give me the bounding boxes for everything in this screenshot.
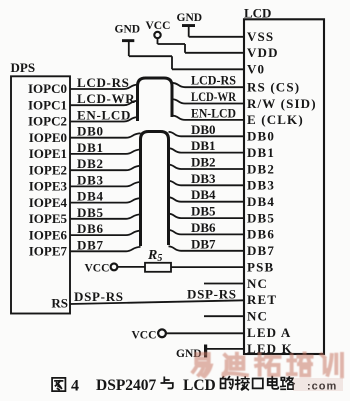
svg-text:LED K: LED K bbox=[247, 341, 293, 356]
wire DB1 (right segment to LCD pin DB1) bbox=[169, 148, 245, 152]
svg-text:EN-LCD: EN-LCD bbox=[77, 108, 131, 123]
svg-text:DB1: DB1 bbox=[191, 138, 216, 153]
svg-text:4: 4 bbox=[71, 378, 79, 395]
wire DB0 (left segment from DSP pin IOPE0) bbox=[70, 133, 141, 137]
wire LCD-WR (left segment from DSP pin IOPC1) bbox=[70, 101, 138, 105]
svg-text:DB2: DB2 bbox=[191, 155, 216, 170]
svg-text:DB7: DB7 bbox=[77, 237, 104, 252]
caption 图4 DSP2407 与 LCD 的接口电路 bbox=[52, 377, 294, 395]
svg-text:RS (CS): RS (CS) bbox=[247, 80, 300, 95]
VCC symbol (to VDD) bbox=[146, 20, 245, 53]
svg-text:DB4: DB4 bbox=[191, 187, 216, 202]
wire R5 to PSB bbox=[171, 266, 244, 268]
svg-text:DSP2407: DSP2407 bbox=[96, 377, 157, 394]
wire DB4 (left segment from DSP pin IOPE4) bbox=[70, 198, 141, 202]
ground symbol GND2 (to VSS) bbox=[177, 12, 245, 37]
svg-text:RS: RS bbox=[51, 296, 68, 311]
svg-text:DB0: DB0 bbox=[191, 122, 216, 137]
svg-text:DB1: DB1 bbox=[77, 140, 104, 155]
cable bundle hump 2 (data bus DB0-DB7) bbox=[141, 132, 169, 247]
svg-text:IOPC0: IOPC0 bbox=[28, 81, 67, 96]
svg-text:DB2: DB2 bbox=[247, 161, 275, 176]
svg-text:IOPE6: IOPE6 bbox=[29, 227, 68, 242]
svg-text:VSS: VSS bbox=[247, 29, 274, 44]
cable bundle hump 1 (control signals) bbox=[138, 78, 173, 121]
svg-text:V0: V0 bbox=[247, 62, 265, 77]
svg-text:DB1: DB1 bbox=[247, 145, 275, 160]
wire DB0 (right segment to LCD pin DB0) bbox=[169, 132, 245, 136]
svg-text:LCD-WR: LCD-WR bbox=[77, 91, 135, 106]
svg-text:VDD: VDD bbox=[247, 45, 279, 60]
wire DB3 (right segment to LCD pin DB3) bbox=[169, 181, 245, 185]
svg-text:DB0: DB0 bbox=[77, 124, 104, 139]
wire DB6 (right segment to LCD pin DB6) bbox=[169, 230, 245, 234]
wire DB5 (left segment from DSP pin IOPE5) bbox=[70, 214, 141, 218]
wire EN-LCD (left segment from DSP pin IOPC2) bbox=[70, 117, 138, 121]
svg-text:NC: NC bbox=[247, 276, 268, 291]
svg-text:DB6: DB6 bbox=[247, 227, 275, 242]
svg-text:IOPC1: IOPC1 bbox=[28, 97, 67, 112]
svg-text:IOPE5: IOPE5 bbox=[29, 211, 68, 226]
VCC symbol (LED A) bbox=[132, 329, 245, 341]
svg-text:E (CLK): E (CLK) bbox=[247, 112, 304, 127]
svg-text:IOPE3: IOPE3 bbox=[29, 179, 68, 194]
wire DB2 (left segment from DSP pin IOPE2) bbox=[70, 166, 141, 170]
watermark 易迪拓培训 bbox=[193, 353, 343, 392]
svg-text:DB3: DB3 bbox=[247, 178, 275, 193]
svg-text:LCD: LCD bbox=[183, 377, 216, 394]
wire EN-LCD (right segment to LCD pin E(CLK)) bbox=[172, 116, 244, 120]
wire DB1 (left segment from DSP pin IOPE1) bbox=[70, 150, 141, 154]
svg-text:DSP-RS: DSP-RS bbox=[74, 289, 124, 304]
svg-text:LCD-WR: LCD-WR bbox=[191, 89, 237, 104]
svg-text:LCD-RS: LCD-RS bbox=[77, 75, 130, 90]
LCD module box bbox=[244, 19, 324, 354]
ground symbol GND1 (to V0) bbox=[115, 24, 245, 70]
wire LCD-RS (left segment from DSP pin IOPC0) bbox=[70, 85, 138, 89]
svg-text:DB6: DB6 bbox=[77, 221, 104, 236]
svg-text:VCC: VCC bbox=[132, 330, 157, 342]
svg-text:DB0: DB0 bbox=[247, 129, 275, 144]
ground symbol GND3 (LED K) bbox=[176, 345, 244, 361]
svg-text:GND: GND bbox=[177, 12, 203, 24]
wire DB7 (left segment from DSP pin IOPE7) bbox=[70, 247, 141, 251]
svg-text:LED A: LED A bbox=[247, 325, 291, 340]
wire DB5 (right segment to LCD pin DB5) bbox=[169, 214, 245, 218]
svg-text:DB5: DB5 bbox=[191, 204, 216, 219]
svg-text:IOPC2: IOPC2 bbox=[28, 114, 67, 129]
svg-text:IOPE1: IOPE1 bbox=[29, 146, 67, 161]
DSP chip U1 box (DPS) bbox=[11, 76, 70, 313]
wire DB2 (right segment to LCD pin DB2) bbox=[169, 165, 245, 169]
VCC symbol (R5 feed) bbox=[85, 263, 146, 275]
wire DB7 (right segment to LCD pin DB7) bbox=[169, 246, 245, 250]
svg-text:LCD-RS: LCD-RS bbox=[191, 73, 236, 88]
svg-text:DB2: DB2 bbox=[77, 156, 104, 171]
wire DSP-RS (RS to RET) bbox=[70, 300, 244, 304]
svg-text:DSP-RS: DSP-RS bbox=[187, 287, 237, 302]
svg-text:GND: GND bbox=[115, 24, 141, 36]
svg-text:NC: NC bbox=[247, 309, 268, 324]
svg-text:VCC: VCC bbox=[85, 263, 110, 275]
svg-text:DB3: DB3 bbox=[77, 172, 104, 187]
svg-text:EN-LCD: EN-LCD bbox=[191, 105, 236, 120]
svg-text:DB5: DB5 bbox=[77, 205, 104, 220]
wire LCD-RS (right segment to LCD pin RS(CS)) bbox=[172, 83, 244, 87]
svg-text:DB6: DB6 bbox=[191, 220, 216, 235]
svg-text:DB7: DB7 bbox=[191, 236, 216, 251]
wire NC stub (pin 16) bbox=[204, 283, 244, 285]
svg-text:IOPE7: IOPE7 bbox=[29, 244, 68, 259]
resistor R5 bbox=[145, 263, 171, 272]
svg-text:DB4: DB4 bbox=[247, 194, 275, 209]
svg-text:RET: RET bbox=[247, 292, 277, 307]
svg-text:PSB: PSB bbox=[247, 259, 274, 274]
svg-text:VCC: VCC bbox=[146, 20, 171, 32]
wire LCD-WR (right segment to LCD pin R/W(SID)) bbox=[172, 99, 244, 103]
svg-text:DPS: DPS bbox=[11, 60, 36, 75]
wire DB3 (left segment from DSP pin IOPE3) bbox=[70, 182, 141, 186]
svg-text:LCD: LCD bbox=[244, 6, 271, 21]
svg-text:DB5: DB5 bbox=[247, 210, 275, 225]
svg-text:R/W (SID): R/W (SID) bbox=[247, 96, 317, 111]
svg-text:DB3: DB3 bbox=[191, 171, 216, 186]
wire NC stub (pin 18) bbox=[204, 315, 244, 317]
svg-text:IOPE2: IOPE2 bbox=[29, 162, 67, 177]
wire DB4 (right segment to LCD pin DB4) bbox=[169, 197, 245, 201]
svg-text:DB4: DB4 bbox=[77, 189, 104, 204]
wire DB6 (left segment from DSP pin IOPE6) bbox=[70, 231, 141, 235]
svg-text:IOPE0: IOPE0 bbox=[29, 130, 67, 145]
svg-text:IOPE4: IOPE4 bbox=[29, 195, 68, 210]
svg-text:DB7: DB7 bbox=[247, 243, 275, 258]
